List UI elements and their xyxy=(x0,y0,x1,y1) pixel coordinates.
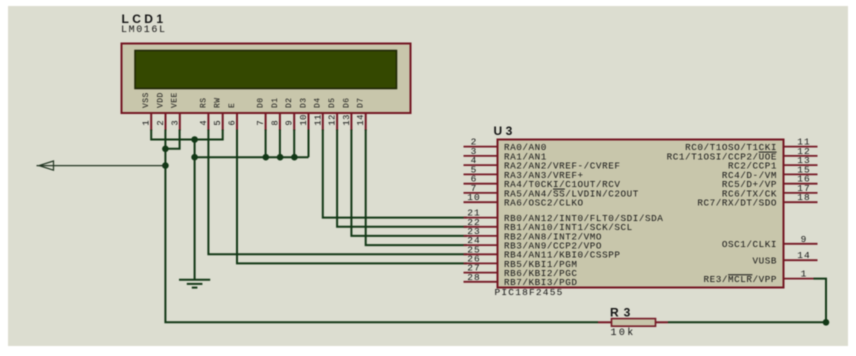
LCD pin 11 (D4) stub xyxy=(322,113,324,131)
U3 pin 26 stub (left) xyxy=(464,262,498,264)
wire LCD pin 10 down to ground bus xyxy=(308,130,310,158)
wire LCD pin 7 down to ground bus xyxy=(265,130,267,158)
svg-text:1: 1 xyxy=(801,269,808,280)
svg-text:LCD1: LCD1 xyxy=(122,12,167,26)
wire LCD pin 9 down to ground bus xyxy=(293,130,295,158)
U3 pin 14 stub (right) xyxy=(784,259,818,261)
svg-text:D5: D5 xyxy=(328,97,337,108)
LCD pin 12 (D5) stub xyxy=(336,113,338,131)
U3 pin 22 stub (left) xyxy=(464,226,498,228)
U3 pin 9 stub (right) xyxy=(784,243,818,245)
svg-text:14: 14 xyxy=(797,250,810,261)
overline over UOE (pin 12) xyxy=(759,151,777,153)
svg-text:10k: 10k xyxy=(611,327,636,339)
overline over MCLR (pin 1) xyxy=(728,274,752,276)
LCD pin 4 (RS) stub xyxy=(207,113,209,131)
svg-text:LM016L: LM016L xyxy=(121,25,167,36)
LCD pin 13 (D6) stub xyxy=(350,113,352,131)
wire LCD pin 11 to U3 RB0 xyxy=(323,130,467,218)
LCD LM016L body xyxy=(122,44,411,114)
svg-text:10: 10 xyxy=(467,192,480,203)
wire LCD pin 12 to U3 RB1 xyxy=(337,130,467,227)
svg-text:D4: D4 xyxy=(314,97,323,108)
overline over SS (pin 7) xyxy=(553,188,565,190)
wire VSS pin1 + RW pin5 to ground rail xyxy=(151,130,223,140)
svg-text:28: 28 xyxy=(467,272,480,283)
svg-text:PIC18F2455: PIC18F2455 xyxy=(495,287,564,298)
LCD pin 7 (D0) stub xyxy=(265,113,267,131)
U3 pin 17 stub (right) xyxy=(784,192,818,194)
U3 pin 18 stub (right) xyxy=(784,201,818,203)
svg-text:9: 9 xyxy=(801,234,808,245)
svg-text:VSS: VSS xyxy=(142,92,151,108)
U3 pin 12 stub (right) xyxy=(784,155,818,157)
svg-text:14: 14 xyxy=(356,114,366,126)
wire D0-D3 ground bus xyxy=(195,156,309,158)
wire VDD pin2 down to bottom rail xyxy=(165,130,598,323)
junction node D0 xyxy=(263,154,270,161)
U3 pin 16 stub (right) xyxy=(784,183,818,185)
LCD pin 14 (D7) stub xyxy=(365,113,367,131)
U3 pin 13 stub (right) xyxy=(784,164,818,166)
junction node MCLR/R3 xyxy=(823,319,830,326)
U3 pin 28 stub (left) xyxy=(464,281,498,283)
svg-text:U3: U3 xyxy=(494,124,516,138)
svg-text:D2: D2 xyxy=(285,97,294,108)
svg-text:D3: D3 xyxy=(299,97,308,108)
wire LCD pin 8 down to ground bus xyxy=(279,130,281,158)
svg-text:E: E xyxy=(228,103,237,108)
svg-text:6: 6 xyxy=(228,120,238,126)
svg-text:D1: D1 xyxy=(271,97,280,108)
power terminal arrow xyxy=(37,165,166,167)
svg-text:RA6/OSC2/CLKO: RA6/OSC2/CLKO xyxy=(504,198,584,209)
svg-text:RB7/KBI3/PGD: RB7/KBI3/PGD xyxy=(504,277,578,288)
U3 pin 2 stub (left) xyxy=(464,146,498,148)
U3 pin 11 stub (right) xyxy=(784,146,818,148)
U3 pin 21 stub (left) xyxy=(464,217,498,219)
svg-text:RW: RW xyxy=(214,97,223,108)
svg-text:4: 4 xyxy=(199,120,209,126)
LCD pin 5 (RW) stub xyxy=(222,113,224,131)
svg-text:2: 2 xyxy=(156,120,166,126)
U3 pin 10 stub (left) xyxy=(464,201,498,203)
svg-text:D7: D7 xyxy=(357,97,366,108)
wire U3 pin1 RE3/MCLR to R3 rail xyxy=(814,279,827,323)
wire ground vertical xyxy=(194,140,196,280)
svg-text:D6: D6 xyxy=(342,97,351,108)
junction node GND (D-bus) xyxy=(191,154,198,161)
svg-text:OSC1/CLKI: OSC1/CLKI xyxy=(722,239,777,250)
svg-text:RC7/RX/DT/SDO: RC7/RX/DT/SDO xyxy=(697,198,777,209)
junction node GND (VSS/RW) xyxy=(191,136,198,143)
U3 pin 15 stub (right) xyxy=(784,173,818,175)
svg-text:RE3/MCLR/VPP: RE3/MCLR/VPP xyxy=(703,274,777,285)
U3 pin 4 stub (left) xyxy=(464,164,498,166)
LCD pin 3 (VEE) stub xyxy=(179,113,181,131)
svg-text:D0: D0 xyxy=(257,97,266,108)
U3 pin 27 stub (left) xyxy=(464,272,498,274)
svg-text:5: 5 xyxy=(213,120,223,126)
U3 pin 1 stub (right) xyxy=(784,278,814,280)
junction node VDD (VEE tap) xyxy=(162,146,169,153)
LCD pin 2 (VDD) stub xyxy=(165,113,167,131)
U3 pin 24 stub (left) xyxy=(464,244,498,246)
svg-text:8: 8 xyxy=(270,120,280,126)
LCD pin 8 (D1) stub xyxy=(279,113,281,131)
svg-text:1: 1 xyxy=(142,120,152,126)
wire rail right of R3 xyxy=(668,321,826,323)
resistor R3 body xyxy=(612,319,656,327)
wire LCD pin 13 to U3 RB2 xyxy=(351,130,467,236)
wire LCD pin 4 to U3 RB4 xyxy=(208,130,467,255)
LCD pin 6 (E) stub xyxy=(236,113,238,131)
resistor R3 leads xyxy=(598,321,612,323)
svg-text:18: 18 xyxy=(797,192,810,203)
junction node VDD (power terminal) xyxy=(162,162,169,169)
wire LCD pin 6 to U3 RB5 xyxy=(237,130,467,264)
ground symbol xyxy=(179,280,210,288)
svg-text:VUSB: VUSB xyxy=(752,256,777,267)
U3 PIC18F2455 body xyxy=(498,140,784,288)
U3 pin 5 stub (left) xyxy=(464,173,498,175)
LCD pin 10 (D3) stub xyxy=(308,113,310,131)
U3 pin 23 stub (left) xyxy=(464,235,498,237)
LCD pin 1 (VSS) stub xyxy=(150,113,152,131)
svg-text:13: 13 xyxy=(342,114,352,126)
U3 pin 25 stub (left) xyxy=(464,253,498,255)
U3 pin 3 stub (left) xyxy=(464,155,498,157)
junction node D2 xyxy=(291,154,298,161)
junction node D1 xyxy=(277,154,284,161)
svg-text:11: 11 xyxy=(313,114,323,126)
svg-text:VDD: VDD xyxy=(156,92,165,108)
LCD screen xyxy=(135,51,397,89)
svg-text:7: 7 xyxy=(256,120,266,126)
LCD pin 9 (D2) stub xyxy=(293,113,295,131)
svg-text:10: 10 xyxy=(299,114,309,126)
U3 pin 7 stub (left) xyxy=(464,192,498,194)
U3 pin 6 stub (left) xyxy=(464,183,498,185)
svg-text:R3: R3 xyxy=(610,306,635,320)
wire VEE pin3 joins VDD xyxy=(165,130,179,149)
svg-text:VEE: VEE xyxy=(171,92,180,108)
svg-text:12: 12 xyxy=(328,114,338,126)
svg-text:RS: RS xyxy=(199,97,208,108)
svg-text:3: 3 xyxy=(170,120,180,126)
wire LCD pin 14 to U3 RB3 xyxy=(366,130,467,246)
svg-text:9: 9 xyxy=(285,120,295,126)
